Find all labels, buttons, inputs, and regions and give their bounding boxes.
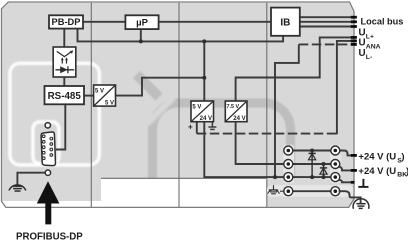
- wire UANA dashed line: [197, 133, 337, 135]
- terminal 1.1 contact: [287, 149, 291, 153]
- stub UANA: [351, 40, 357, 43]
- wire local bus line 1: [300, 16, 357, 18]
- hook row1 to US terminal: [339, 151, 356, 156]
- box IB: [271, 8, 300, 36]
- ground under DC2: [208, 122, 216, 130]
- box PB-DP: [49, 15, 83, 28]
- svg-text:PROFIBUS-DP: PROFIBUS-DP: [16, 232, 83, 243]
- svg-text:µP: µP: [136, 17, 148, 28]
- terminal 4.2: [331, 187, 340, 196]
- module outline stroke: [2, 2, 355, 207]
- box uP: [125, 15, 158, 29]
- terminal row 4 wire: [293, 190, 332, 192]
- terminal 2.2: [331, 160, 340, 169]
- junction D1 row3: [310, 175, 314, 179]
- wire RS-485 to D-SUB: [56, 104, 66, 149]
- wire PB-DP to uP: [83, 21, 125, 23]
- svg-text:24 V: 24 V: [200, 116, 212, 122]
- svg-text:24 V: 24 V: [233, 116, 245, 122]
- connector hole top: [45, 123, 50, 128]
- terminal 1.2 contact: [334, 149, 338, 153]
- svg-text:L-: L-: [366, 54, 372, 61]
- wire DC3 bottom to row2: [236, 122, 284, 164]
- svg-text:5 V: 5 V: [192, 104, 201, 110]
- box RS-485: [45, 86, 85, 104]
- svg-text:U: U: [359, 48, 366, 59]
- svg-text:PB-DP: PB-DP: [52, 17, 81, 27]
- diode D1: [309, 151, 316, 178]
- diode D2: [320, 164, 327, 177]
- terminal 1.1: [284, 146, 293, 155]
- stub local bus 1: [351, 16, 357, 19]
- D-SUB 9 connector: [41, 132, 55, 166]
- label GND terminal: [358, 179, 368, 187]
- terminal 2.1 contact: [287, 162, 291, 166]
- svg-text:7.5 V: 7.5 V: [227, 104, 240, 110]
- stub US: [351, 154, 357, 157]
- svg-text:IB: IB: [280, 17, 290, 28]
- stub UBK: [351, 169, 357, 172]
- mini earth row4: [268, 185, 284, 194]
- wire optocoupler to RS-485: [63, 77, 65, 86]
- svg-text:RS-485: RS-485: [48, 91, 82, 102]
- hook row2 to UBK terminal: [338, 166, 357, 170]
- wire PB-DP to optocoupler: [63, 29, 65, 47]
- junction uP rail: [139, 39, 143, 43]
- junction D1 row1: [310, 149, 314, 153]
- wire UL- dashed stub: [299, 43, 351, 45]
- svg-text:ANA: ANA: [366, 44, 381, 51]
- PROFIBUS-DP arrow: [37, 181, 60, 224]
- section divider 1: [90, 3, 92, 207]
- connector hole bottom: [45, 170, 50, 175]
- terminal 2.2 contact: [334, 162, 338, 166]
- junction D2 row3: [322, 175, 326, 179]
- terminal 3.2 contact: [334, 175, 338, 179]
- svg-text:+24 V (U: +24 V (U: [358, 166, 396, 177]
- wire local bus line 2: [300, 21, 357, 23]
- terminal 4.2 contact: [334, 189, 338, 193]
- wire DC2 plus pin: [196, 122, 198, 134]
- junction DC2 rail: [202, 39, 206, 43]
- wire UL- to row3: [275, 44, 299, 177]
- wire DC3 top to UL+ terminal: [236, 37, 357, 101]
- terminal 3.1 contact: [287, 175, 291, 179]
- junction D2 row2: [322, 162, 326, 166]
- svg-text:Local bus: Local bus: [361, 17, 404, 27]
- DC converter 5V/24V: [191, 101, 214, 122]
- terminal row 1 wire: [293, 150, 332, 152]
- terminal 3.2: [331, 173, 340, 182]
- stub UL+: [351, 36, 357, 39]
- junction DC1 output node: [202, 76, 206, 80]
- wire D-SUB shield to earth: [17, 173, 45, 187]
- wire local bus line 3: [300, 26, 357, 28]
- earth symbol right: [353, 199, 369, 209]
- terminal 1.2: [331, 146, 340, 155]
- wire RS-485 to DC1: [84, 95, 94, 97]
- stub GND: [351, 181, 355, 184]
- stub local bus 2: [351, 20, 357, 23]
- hook row4 to earth: [339, 191, 361, 203]
- svg-text:+: +: [188, 122, 193, 131]
- svg-text:5 V: 5 V: [95, 88, 104, 94]
- stub local bus 3: [351, 25, 357, 28]
- wire 5V rail PB-DP to IB: [78, 29, 284, 42]
- wire DC2 output to row3: [204, 122, 283, 177]
- svg-text:L+: L+: [366, 33, 374, 40]
- terminal row 3 wire: [293, 176, 332, 178]
- hook row3 to GND terminal: [338, 179, 354, 182]
- optocoupler U2: [53, 47, 76, 77]
- terminal 4.1: [284, 187, 293, 196]
- terminal pads (light): [284, 145, 295, 184]
- svg-text:+24 V (U: +24 V (U: [358, 152, 396, 163]
- svg-text:5 V: 5 V: [105, 100, 114, 106]
- module outline: [2, 2, 355, 207]
- terminal 3.1: [284, 173, 293, 182]
- section divider 3: [266, 3, 268, 207]
- svg-text:): ): [401, 152, 404, 163]
- wire rail to DC2 input: [203, 41, 205, 101]
- terminal 2.1: [284, 160, 293, 169]
- section boundary line: [101, 177, 267, 179]
- terminal 4.1 contact: [287, 189, 291, 193]
- junction UL- row3: [273, 175, 277, 179]
- earth symbol left: [9, 185, 26, 191]
- wire uP to IB: [159, 21, 271, 23]
- wire DC1 output to node: [116, 78, 205, 96]
- DC converter 5V/5V: [94, 85, 116, 106]
- DC converter 7.5V/24V: [225, 101, 247, 122]
- wire uP pin to rail: [140, 29, 142, 41]
- wire UANA riser to terminal: [337, 41, 357, 134]
- stub UL-: [351, 43, 357, 46]
- section divider 2: [178, 3, 180, 207]
- terminal row 2 wire: [293, 163, 332, 165]
